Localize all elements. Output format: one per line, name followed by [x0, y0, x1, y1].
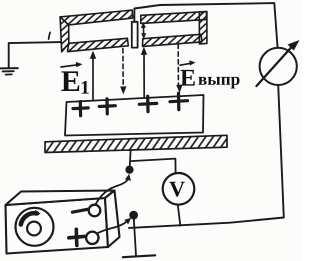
wire: voltmeter bottom [178, 205, 181, 226]
minus terminal [89, 205, 101, 217]
label E1 [61, 71, 79, 91]
knob outer [16, 208, 54, 246]
junction dot2 [129, 211, 138, 220]
plus charges on plate [73, 93, 188, 116]
plus sign [69, 229, 85, 245]
wire: ground wire from left electrode to earth [9, 42, 62, 67]
plus terminal [86, 232, 98, 244]
field arrow solid up 3 [143, 53, 145, 98]
wire: strip to galvanometer [134, 3, 277, 48]
vibrating strip between electrodes [132, 22, 138, 48]
label E1 vector arrow [61, 65, 79, 67]
wire: dot2 down to earth tab [134, 219, 136, 256]
wire: plus terminal to dot2 [97, 221, 127, 233]
knob indicator arc [21, 213, 37, 224]
electrode left: bottom bar [68, 38, 129, 51]
double arrow in gap [141, 22, 146, 39]
electrode left: top bar [60, 10, 133, 25]
electrode right: top bar [141, 12, 207, 24]
voltmeter [163, 173, 195, 205]
galvanometer [260, 48, 297, 85]
label E vypr [180, 70, 194, 86]
electrode right: right wall [199, 12, 207, 44]
power supply box: top face [6, 191, 115, 206]
field arrow dashed down 2 [122, 49, 124, 88]
ground [1, 68, 18, 75]
tick t on ground wire [49, 32, 51, 39]
charged plate [65, 95, 204, 136]
wire: minus terminal to dot1 [95, 177, 128, 205]
electrode left: left wall [60, 17, 69, 52]
field arrow solid up 1 [92, 57, 94, 100]
electrode right: bottom bar [143, 34, 202, 46]
wire: branch to voltmeter [131, 159, 176, 173]
power supply box: right face [105, 191, 120, 248]
field arrow dashed down 4 [177, 44, 179, 85]
power supply box: front face [6, 198, 109, 254]
support plate (hatched) [45, 135, 227, 152]
label E vypr vector arrow [180, 63, 192, 65]
junction dot1 [125, 166, 133, 174]
wire: galvanometer down and bottom run [129, 85, 284, 228]
earth tab [123, 255, 155, 257]
wire: support to junction dot1 [130, 151, 131, 170]
galvanometer needle arrow [257, 47, 293, 87]
knob hub [27, 222, 41, 236]
minus sign [72, 209, 88, 212]
